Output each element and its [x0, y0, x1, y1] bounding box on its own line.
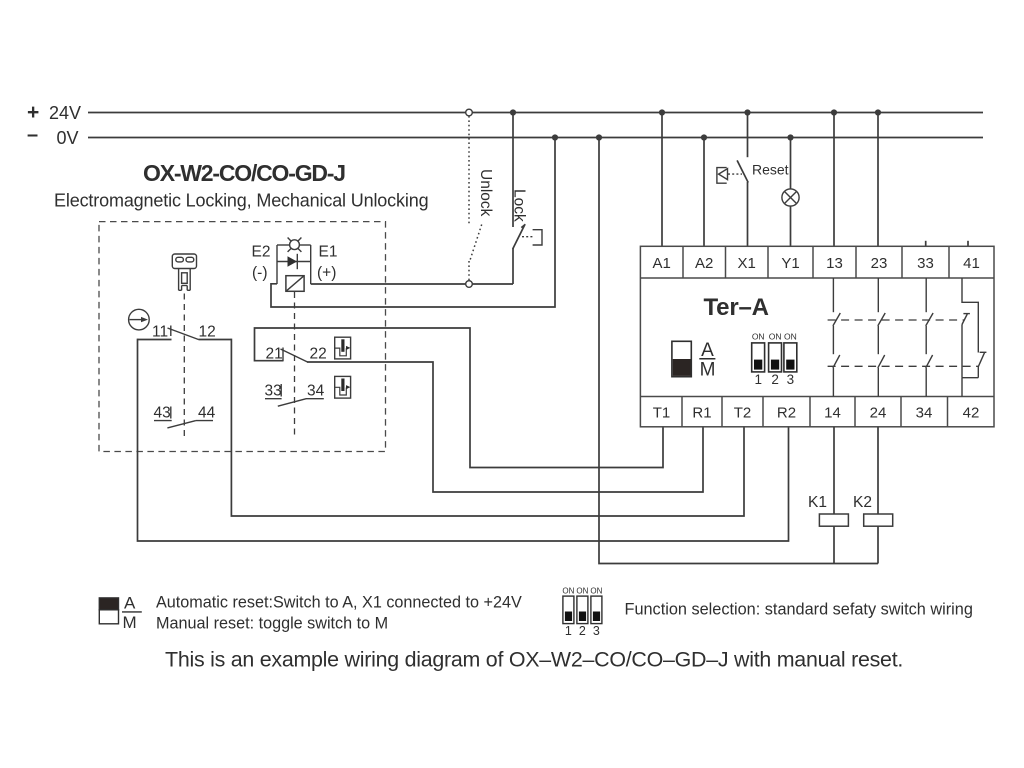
svg-text:Lock: Lock	[511, 189, 528, 222]
legend A/M switch icon	[99, 594, 142, 633]
svg-text:33: 33	[917, 255, 934, 272]
svg-text:Y1: Y1	[781, 255, 799, 272]
bottom terminal dividers	[682, 397, 948, 427]
svg-text:OX-W2-CO/CO-GD-J: OX-W2-CO/CO-GD-J	[143, 160, 345, 186]
key mechanical dashed link	[183, 294, 185, 437]
label E2 (-)	[252, 244, 271, 282]
svg-text:42: 42	[963, 405, 980, 422]
internal contact 23-24	[878, 278, 885, 397]
svg-text:Ter–A: Ter–A	[704, 294, 769, 321]
svg-text:T2: T2	[734, 405, 752, 422]
svg-text:ON: ON	[769, 332, 782, 342]
svg-text:ON: ON	[576, 587, 588, 596]
svg-text:24: 24	[870, 405, 887, 422]
svg-text:1: 1	[754, 372, 762, 387]
svg-text:14: 14	[824, 405, 841, 422]
svg-text:41: 41	[963, 255, 980, 272]
svg-text:E2: E2	[252, 244, 271, 261]
relay coil K2	[853, 494, 893, 526]
+24V rail	[27, 101, 983, 124]
dashed enclosure box	[99, 222, 386, 452]
svg-text:23: 23	[871, 255, 888, 272]
indicator lamp on Y1	[782, 189, 799, 206]
wire 14 to K1	[833, 427, 835, 514]
wire 21 to T1	[255, 328, 664, 468]
svg-text:3: 3	[787, 372, 795, 387]
key actuator	[172, 254, 196, 290]
unlock switch (dotted)	[469, 116, 482, 281]
svg-text:Function selection: standard s: Function selection: standard sefaty swit…	[625, 601, 973, 619]
wire K2 to return	[877, 526, 879, 563]
svg-text:X1: X1	[738, 255, 756, 272]
top terminal dividers	[683, 246, 949, 278]
reset switch blade	[737, 160, 748, 182]
svg-text:–: –	[27, 124, 38, 146]
svg-text:12: 12	[199, 324, 216, 341]
internal NC contact 41-42	[962, 278, 986, 397]
wire 23	[877, 113, 879, 247]
svg-text:0V: 0V	[57, 128, 79, 148]
svg-text:2: 2	[771, 372, 779, 387]
svg-text:34: 34	[916, 405, 933, 422]
solenoid coil	[286, 276, 304, 292]
relay coil K1	[808, 494, 848, 526]
junction dots on rails	[510, 109, 881, 140]
wire 0V to K coils return	[599, 138, 878, 564]
svg-text:T1: T1	[653, 405, 671, 422]
svg-text:Unlock: Unlock	[477, 169, 494, 217]
stub above terminal 33	[925, 241, 927, 247]
dashed linkage row 1	[828, 319, 964, 321]
svg-text:K1: K1	[808, 494, 827, 511]
svg-text:Reset: Reset	[752, 162, 789, 178]
label E1 (+)	[317, 244, 337, 282]
lock unit E1/E2 frame	[277, 245, 311, 284]
wire X1 upper	[747, 113, 749, 158]
svg-text:This is an example wiring diag: This is an example wiring diagram of OX–…	[165, 648, 903, 672]
wire 22 to R1	[307, 362, 703, 492]
lock actuator bracket	[522, 230, 542, 245]
svg-text:Automatic reset:Switch to A, X: Automatic reset:Switch to A, X1 connecte…	[156, 594, 522, 612]
svg-text:A2: A2	[695, 255, 713, 272]
contact 21-22	[266, 346, 327, 363]
solenoid mechanical dashed link	[294, 292, 296, 436]
top terminal labels	[653, 255, 980, 272]
svg-text:34: 34	[307, 383, 325, 400]
wire 12 to T2	[231, 339, 744, 516]
svg-text:A: A	[701, 340, 714, 361]
contact 11-12	[138, 324, 232, 341]
energized-position symbol at 34	[335, 376, 351, 398]
svg-text:44: 44	[198, 405, 216, 422]
energized-position symbol at 22	[335, 337, 351, 359]
wire Y1 lower	[790, 206, 792, 246]
0V rail	[27, 124, 983, 148]
svg-text:A1: A1	[653, 255, 671, 272]
svg-text:11: 11	[152, 324, 168, 341]
svg-text:33: 33	[265, 383, 282, 400]
contact 43-44 (spare)	[154, 405, 216, 428]
safety relay U1 Ter-A outline	[640, 246, 994, 426]
svg-text:A: A	[124, 594, 136, 613]
stub above terminal 41	[967, 241, 969, 247]
svg-text:ON: ON	[590, 587, 602, 596]
dashed linkage row 2	[828, 365, 979, 367]
reset pushbutton actuator	[717, 168, 742, 184]
lock switch	[513, 113, 526, 285]
direction indicator circle	[129, 309, 150, 330]
DIP switch S1 in relay	[752, 332, 797, 388]
internal contact 13-14	[833, 278, 840, 397]
wire K1 to return	[833, 526, 835, 563]
svg-text:3: 3	[593, 624, 600, 638]
wire A1	[661, 113, 663, 247]
svg-text:E1: E1	[319, 244, 338, 261]
svg-text:ON: ON	[752, 332, 765, 342]
node: open circle at +24V unlock tap	[466, 109, 473, 116]
contact 33-34 (spare)	[265, 383, 325, 407]
svg-text:K2: K2	[853, 494, 872, 511]
svg-text:43: 43	[154, 405, 171, 422]
svg-text:Electromagnetic Locking, Mecha: Electromagnetic Locking, Mechanical Unlo…	[54, 191, 428, 211]
svg-text:+: +	[27, 101, 39, 124]
svg-text:R1: R1	[692, 405, 711, 422]
svg-text:Manual reset: toggle switch to: Manual reset: toggle switch to M	[156, 615, 388, 633]
svg-text:(+): (+)	[317, 265, 336, 282]
A/M mode switch	[672, 340, 716, 381]
svg-text:24V: 24V	[49, 103, 81, 123]
svg-text:2: 2	[579, 624, 586, 638]
svg-text:1: 1	[565, 624, 572, 638]
wire E2 to 0V	[271, 138, 555, 308]
svg-text:13: 13	[826, 255, 843, 272]
wire A2	[703, 138, 705, 247]
wire E1 to unlock/lock node	[311, 283, 513, 285]
svg-text:M: M	[123, 613, 137, 632]
wire 13	[833, 113, 835, 247]
svg-text:(-): (-)	[252, 265, 268, 282]
wire Y1 upper	[790, 138, 792, 190]
wire X1 lower	[747, 182, 749, 246]
wire 24 to K2	[877, 427, 879, 514]
svg-text:M: M	[700, 360, 716, 381]
indicator lamp on lock unit	[288, 238, 302, 252]
diode D1	[277, 254, 311, 269]
internal contact 33-34	[926, 278, 933, 397]
legend DIP switch icon	[562, 587, 602, 639]
wire 11 to R2	[138, 339, 789, 541]
svg-text:22: 22	[310, 346, 327, 363]
node: open circle at E1 wire	[466, 281, 473, 288]
bottom terminal labels	[653, 405, 980, 422]
svg-text:ON: ON	[562, 587, 574, 596]
svg-text:R2: R2	[777, 405, 796, 422]
svg-text:ON: ON	[784, 332, 797, 342]
